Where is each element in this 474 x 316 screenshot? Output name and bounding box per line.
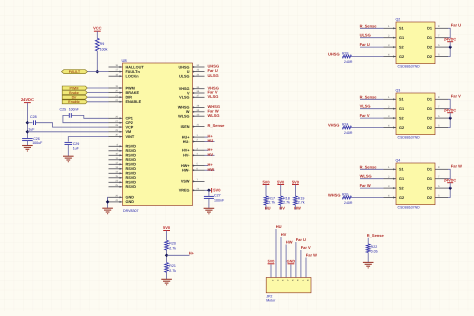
svg-text:S2: S2 (399, 45, 404, 49)
wire R26 to G2 (352, 197, 384, 199)
power port 24VDC (21, 97, 34, 103)
wire JP2 pin 5 (290, 265, 292, 278)
svg-text:24VDC: 24VDC (21, 97, 34, 102)
svg-text:D1: D1 (427, 107, 432, 111)
wire Q3 G1 VLSG (360, 108, 384, 110)
wire JP2 pin 4 (285, 245, 287, 278)
wire U8 GND pins (107, 197, 110, 202)
wire Enable to U8 (87, 101, 108, 103)
svg-text:Far V: Far V (360, 113, 370, 118)
svg-text:UHSG: UHSG (179, 65, 190, 69)
svg-text:U: U (187, 70, 190, 74)
svg-text:GND: GND (287, 260, 296, 264)
wire C27 to ground (208, 198, 210, 208)
svg-text:VCP: VCP (126, 125, 134, 129)
svg-text:CP1: CP1 (126, 117, 133, 121)
svg-text:WLSG: WLSG (360, 174, 372, 179)
svg-text:2.7k: 2.7k (169, 247, 176, 251)
wire Q2 S2 Far U (360, 46, 384, 48)
svg-text:VSW: VSW (181, 180, 190, 184)
svg-text:5V0: 5V0 (268, 260, 275, 264)
svg-text:VHSG: VHSG (328, 123, 339, 128)
svg-text:Far U: Far U (296, 237, 306, 242)
wire Brake to U8 (87, 92, 108, 94)
svg-text:GND: GND (126, 200, 135, 204)
svg-text:HU: HU (276, 224, 282, 229)
wire Q3 S1 R_Sense (360, 98, 384, 100)
svg-text:ULSG: ULSG (360, 33, 371, 38)
svg-text:G1: G1 (399, 107, 404, 111)
svg-text:WHSG: WHSG (178, 106, 190, 110)
wire R28 to G2 (352, 56, 384, 58)
wire Dir to U8 (87, 96, 108, 98)
resistor R24 240R (342, 123, 353, 135)
svg-text:Enable: Enable (68, 100, 79, 104)
svg-text:WLSG: WLSG (178, 115, 189, 119)
svg-text:G2: G2 (399, 55, 404, 59)
wire Q4 S2 Far W (360, 187, 384, 189)
wire C25 to CP2 (63, 115, 109, 122)
ground under C27 (204, 208, 215, 214)
svg-text:D2: D2 (427, 55, 432, 59)
svg-text:HU: HU (265, 205, 271, 210)
svg-text:2.7k: 2.7k (169, 269, 176, 273)
wire Q3 D1 to phase (448, 99, 450, 108)
svg-text:C27: C27 (214, 194, 221, 198)
svg-text:VLSG: VLSG (208, 94, 219, 99)
wire JP2 pin 6 (295, 242, 297, 278)
svg-text:G1: G1 (399, 177, 404, 181)
svg-text:5V0: 5V0 (262, 179, 270, 184)
svg-text:D2: D2 (427, 45, 432, 49)
svg-text:R9: R9 (100, 42, 105, 46)
svg-text:VLSG: VLSG (360, 104, 371, 109)
svg-text:S1: S1 (399, 98, 404, 102)
wire JP2 pin 2 (275, 229, 277, 278)
svg-text:240R: 240R (344, 131, 353, 135)
Q2 pins (384, 25, 449, 59)
svg-text:HV: HV (279, 205, 285, 210)
svg-text:0.05: 0.05 (371, 249, 378, 253)
svg-text:WLSG: WLSG (208, 113, 220, 118)
svg-text:R_Sense: R_Sense (360, 94, 378, 99)
svg-text:G2: G2 (399, 126, 404, 130)
capacitor C27 100nF (204, 190, 225, 202)
svg-text:DRV8307: DRV8307 (123, 209, 139, 213)
wire Q2 D1 to phase (448, 28, 450, 37)
power port 5V0 pullup R19 (292, 179, 300, 196)
svg-text:HV: HV (281, 232, 287, 237)
ground under divider (161, 279, 172, 285)
svg-text:RSVD: RSVD (126, 163, 137, 167)
wire JP2 pin 7 (300, 250, 302, 278)
svg-text:Far U: Far U (360, 42, 370, 47)
svg-text:RSVD: RSVD (126, 167, 137, 171)
wire C25 to CP1 (71, 115, 108, 118)
svg-text:HW: HW (208, 167, 215, 172)
svg-text:24VDC: 24VDC (444, 109, 456, 113)
wire R19 to net HW (294, 205, 296, 210)
svg-text:RSVD: RSVD (126, 176, 137, 180)
wire JP2 pin 1 (270, 265, 272, 278)
svg-text:D1: D1 (427, 168, 432, 172)
svg-text:Far W: Far W (306, 252, 317, 257)
ground under U8 (102, 208, 113, 214)
svg-text:HV+: HV+ (182, 149, 190, 153)
wire to H+ label (167, 254, 190, 256)
svg-text:RSVD: RSVD (126, 145, 137, 149)
U8 left pins (109, 64, 145, 204)
svg-text:5V0: 5V0 (277, 179, 285, 184)
svg-text:Brake: Brake (69, 91, 79, 95)
svg-text:2.7k: 2.7k (298, 200, 305, 204)
svg-text:100k: 100k (100, 48, 108, 52)
svg-text:R21: R21 (169, 264, 176, 268)
resistor R18 2.7k (279, 196, 290, 205)
svg-text:RSVD: RSVD (126, 172, 137, 176)
wire Q3 D2 to 24VDC (448, 118, 450, 127)
resistor R28 240R (342, 52, 353, 64)
Q3 pins (384, 96, 449, 130)
svg-text:RSVD: RSVD (126, 181, 137, 185)
wire Q2 S1 R_Sense (360, 27, 384, 29)
wire C29 to ground (67, 144, 69, 156)
svg-text:RSVD: RSVD (126, 154, 137, 158)
connector JP2 body (266, 278, 311, 303)
resistor R17 2.7k (264, 196, 275, 205)
power port VCC (93, 26, 102, 39)
svg-text:R20: R20 (169, 242, 176, 246)
svg-text:RSVD: RSVD (126, 158, 137, 162)
svg-text:R_Sense: R_Sense (360, 164, 378, 169)
wire R_Sense to shunt (367, 238, 369, 244)
svg-text:C28: C28 (30, 115, 37, 119)
svg-text:D2: D2 (427, 126, 432, 130)
svg-text:100nF: 100nF (214, 198, 225, 202)
svg-text:R_Sense: R_Sense (367, 233, 385, 238)
svg-text:5V0: 5V0 (213, 188, 221, 193)
wire shunt to ground (367, 253, 369, 263)
svg-text:W: W (186, 110, 190, 114)
wire Q4 D2 to 24VDC (448, 188, 450, 197)
U8 right pins (178, 64, 205, 193)
svg-text:RSVD: RSVD (126, 149, 137, 153)
wire divider mid (166, 250, 168, 263)
wire C26 to ground (26, 141, 28, 146)
svg-text:HALLOUT: HALLOUT (126, 65, 145, 69)
wire JP2 pin 3 (280, 237, 282, 278)
svg-text:WHSG: WHSG (328, 193, 340, 198)
wire JP2 pin 8 (305, 258, 307, 278)
junction GND pins (106, 200, 110, 204)
svg-text:VM: VM (126, 130, 132, 134)
svg-text:CSD88537ND: CSD88537ND (398, 136, 421, 140)
wire VCC pullup to FAULTn (96, 51, 98, 72)
junction divider (165, 253, 169, 257)
svg-text:1uF: 1uF (73, 146, 80, 150)
svg-text:LOCKn: LOCKn (126, 75, 140, 79)
svg-text:HU: HU (208, 138, 214, 143)
svg-text:PWM: PWM (126, 86, 135, 90)
svg-text:240R: 240R (344, 201, 353, 205)
wire VREG (205, 189, 212, 191)
wire FAULT port to U8 pin 17 (88, 71, 109, 73)
svg-text:VCC: VCC (93, 26, 102, 31)
net labels on U8 right pins (205, 64, 226, 172)
svg-text:5V0: 5V0 (292, 179, 300, 184)
svg-text:UHSG: UHSG (328, 52, 340, 57)
resistor R19 2.7k (294, 196, 305, 205)
svg-text:ULSG: ULSG (179, 75, 190, 79)
resistor R22 0.05 (366, 244, 377, 253)
svg-text:100uF: 100uF (32, 141, 43, 145)
svg-text:R26: R26 (342, 193, 348, 197)
svg-text:Far V: Far V (451, 94, 461, 99)
svg-text:BRAKE: BRAKE (126, 91, 140, 95)
resistor R20 2.7k (165, 240, 177, 250)
svg-text:S1: S1 (399, 168, 404, 172)
svg-text:Q2: Q2 (396, 18, 401, 22)
wire Q3 S2 Far V (360, 117, 384, 119)
svg-text:Far W: Far W (360, 183, 371, 188)
svg-text:24VDC: 24VDC (444, 179, 456, 183)
Q4 pins (384, 166, 449, 200)
svg-text:U8: U8 (122, 58, 128, 63)
junction FAULTn (95, 70, 99, 74)
svg-text:24VDC: 24VDC (444, 38, 456, 42)
svg-text:100nF: 100nF (69, 108, 80, 112)
svg-text:Far W: Far W (451, 164, 462, 169)
transistor Q3 CSD88537ND body (396, 89, 436, 140)
svg-text:2.7k: 2.7k (283, 200, 290, 204)
svg-text:R24: R24 (342, 123, 348, 127)
power port 24VDC Q2 (444, 38, 456, 48)
svg-text:DIR: DIR (126, 96, 133, 100)
resistor R21 2.7k (165, 263, 177, 273)
wire VM rail (27, 131, 108, 133)
power port 5V0 at VREG (212, 188, 222, 193)
capacitor C28 1uF (27, 115, 36, 132)
svg-text:CP2: CP2 (126, 121, 133, 125)
svg-text:D1: D1 (427, 177, 432, 181)
svg-text:HV: HV (208, 152, 214, 157)
svg-text:R22: R22 (371, 245, 378, 249)
svg-text:HW-: HW- (182, 169, 190, 173)
IC U8 DRV8307 (122, 58, 193, 213)
svg-text:Motor: Motor (266, 298, 276, 302)
wire R18 to net HV (280, 205, 282, 210)
svg-text:HU-: HU- (183, 140, 190, 144)
svg-text:S1: S1 (399, 27, 404, 31)
svg-text:PWM: PWM (69, 86, 78, 90)
wire Q4 S1 R_Sense (360, 168, 384, 170)
port Dir (62, 95, 87, 99)
power port GND at JP2 (287, 260, 296, 264)
svg-text:VLSG: VLSG (179, 96, 189, 100)
port Brake (62, 91, 87, 95)
svg-text:FAULTn: FAULTn (126, 70, 141, 74)
svg-text:C25: C25 (60, 108, 67, 112)
svg-text:Q3: Q3 (396, 89, 401, 93)
svg-text:2.7k: 2.7k (268, 200, 275, 204)
ground under C29 (63, 156, 74, 162)
svg-text:240R: 240R (344, 60, 353, 64)
svg-text:VREG: VREG (179, 189, 190, 193)
svg-text:RSVD: RSVD (126, 185, 137, 189)
svg-text:HW: HW (294, 205, 301, 210)
junction VREG (207, 188, 211, 192)
wire 24VDC vertical rail (26, 103, 28, 138)
svg-text:H+: H+ (189, 251, 195, 256)
port Enable (62, 100, 87, 104)
wire C28 to VCP rail (36, 123, 109, 127)
svg-text:S2: S2 (399, 116, 404, 120)
svg-text:G2: G2 (399, 196, 404, 200)
port PWM (62, 86, 87, 90)
power port 5V0 pullup R17 (262, 179, 270, 196)
transistor Q4 CSD88537ND body (396, 159, 436, 210)
svg-text:HV-: HV- (183, 154, 190, 158)
capacitor C29 1uF (65, 142, 80, 150)
wire Q2 D2 to 24VDC (448, 47, 450, 56)
junction Q4 D2 (448, 186, 452, 190)
svg-text:D1: D1 (427, 98, 432, 102)
svg-text:FAULT: FAULT (69, 70, 81, 74)
junction Q3 D2 (448, 116, 452, 120)
svg-text:D2: D2 (427, 196, 432, 200)
svg-text:Far U: Far U (451, 23, 461, 28)
wire R17 to net HU (265, 205, 267, 210)
svg-text:ENABLE: ENABLE (126, 100, 142, 104)
wire R27 to ground (166, 272, 168, 279)
svg-text:HU+: HU+ (182, 135, 190, 139)
svg-text:GND: GND (126, 196, 135, 200)
junction VM tap (26, 130, 30, 134)
svg-text:ULSG: ULSG (208, 73, 219, 78)
svg-text:Far V: Far V (301, 245, 311, 250)
resistor R26 240R (342, 193, 353, 205)
svg-text:Q4: Q4 (396, 159, 401, 163)
svg-text:R28: R28 (342, 52, 348, 56)
port FAULT (62, 70, 88, 75)
junction Q2 D2 (448, 45, 452, 49)
svg-text:D1: D1 (427, 27, 432, 31)
power port 5V0 divider (163, 225, 171, 241)
svg-text:D1: D1 (427, 36, 432, 40)
svg-text:CSD88537ND: CSD88537ND (398, 206, 421, 210)
wire Q4 D1 to phase (448, 169, 450, 178)
svg-text:G1: G1 (399, 36, 404, 40)
svg-text:C29: C29 (73, 142, 80, 146)
power port 24VDC Q4 (444, 179, 456, 189)
wire R24 to G2 (352, 127, 384, 129)
svg-text:S2: S2 (399, 186, 404, 190)
svg-text:HW+: HW+ (181, 164, 190, 168)
wire Q2 G1 ULSG (360, 37, 384, 39)
svg-text:CSD88537ND: CSD88537ND (398, 65, 421, 69)
wire Q4 G1 WLSG (360, 178, 384, 180)
svg-text:D2: D2 (427, 116, 432, 120)
svg-text:VINT: VINT (126, 135, 135, 139)
transistor Q2 CSD88537ND body (396, 18, 436, 69)
wire PWM to U8 (87, 87, 108, 89)
svg-text:HW: HW (286, 239, 293, 244)
wire VINT rail (68, 137, 108, 142)
svg-text:1uF: 1uF (28, 128, 35, 132)
power port 5V0 pullup R18 (277, 179, 285, 196)
power port 24VDC Q3 (444, 109, 456, 119)
svg-text:R_Sense: R_Sense (208, 123, 226, 128)
junction C28 tap (26, 121, 30, 125)
capacitor C25 100nF (60, 108, 80, 118)
power port 5V0 at JP2 (268, 260, 275, 264)
resistor R9 100k (95, 38, 107, 51)
svg-text:Dir: Dir (72, 96, 77, 100)
svg-text:5V0: 5V0 (163, 225, 171, 230)
svg-text:D2: D2 (427, 186, 432, 190)
ground under C26 (22, 146, 33, 152)
svg-text:ISEN: ISEN (181, 125, 190, 129)
svg-text:R_Sense: R_Sense (360, 23, 378, 28)
ground under shunt (363, 262, 374, 268)
capacitor C26 100uF (22, 137, 43, 145)
